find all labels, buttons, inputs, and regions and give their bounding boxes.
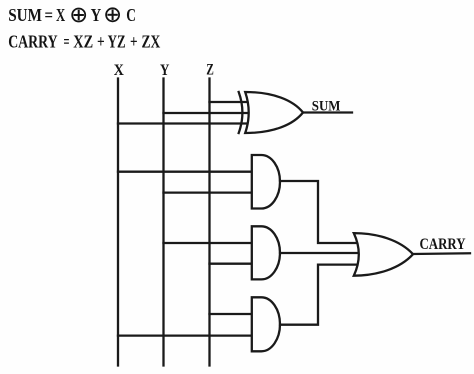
wire Y to AND2 input 1	[164, 242, 252, 244]
svg-text:SUM: SUM	[8, 5, 42, 25]
svg-text:C: C	[126, 5, 136, 25]
svg-text:ZX: ZX	[142, 32, 161, 52]
svg-text:+: +	[130, 32, 138, 52]
wire X to AND3 input 2	[118, 334, 252, 336]
node Y (input line Y)	[162, 79, 164, 366]
wire AND3 output to OR bottom input	[280, 265, 356, 325]
wire X to XOR bottom input	[118, 122, 248, 124]
wire X to AND1 input 1	[118, 171, 252, 173]
svg-text:X: X	[56, 5, 65, 25]
OR gate U5 (CARRY) body	[354, 233, 413, 276]
svg-text:Y: Y	[160, 62, 169, 79]
wire Z to AND3 input 1	[210, 313, 252, 315]
node Z (input line Z)	[208, 79, 210, 366]
svg-text:SUM: SUM	[312, 99, 341, 115]
AND gate U4	[252, 297, 280, 351]
wire AND2 output to OR middle input	[280, 252, 357, 254]
wire OR output to CARRY	[413, 252, 470, 255]
AND gate U2	[252, 155, 280, 209]
node X (input line X)	[117, 79, 119, 366]
wire Z to AND2 input 2	[210, 263, 252, 265]
AND gate U3	[252, 226, 280, 279]
XOR gate U1 leading input arc	[239, 92, 243, 133]
svg-text:CARRY: CARRY	[420, 236, 466, 253]
svg-text:CARRY: CARRY	[8, 32, 57, 52]
xor operator symbol 1	[72, 9, 85, 22]
svg-text:Z: Z	[206, 62, 214, 79]
xor operator symbol 2	[106, 8, 119, 21]
svg-text:+: +	[97, 32, 105, 52]
svg-text:=: =	[45, 5, 54, 25]
wire Y to XOR middle input	[164, 112, 250, 114]
svg-text:Y: Y	[91, 5, 102, 25]
wire XOR output to SUM	[303, 111, 352, 113]
wire Y to AND1 input 2	[164, 191, 252, 193]
svg-text:=: =	[64, 32, 70, 52]
XOR gate U1 (SUM) body	[245, 92, 303, 133]
wire AND1 output to OR top input	[280, 181, 356, 243]
svg-text:XZ: XZ	[73, 32, 93, 52]
wire Z to XOR top input	[210, 101, 249, 103]
svg-text:YZ: YZ	[108, 32, 126, 52]
svg-text:X: X	[114, 62, 124, 79]
